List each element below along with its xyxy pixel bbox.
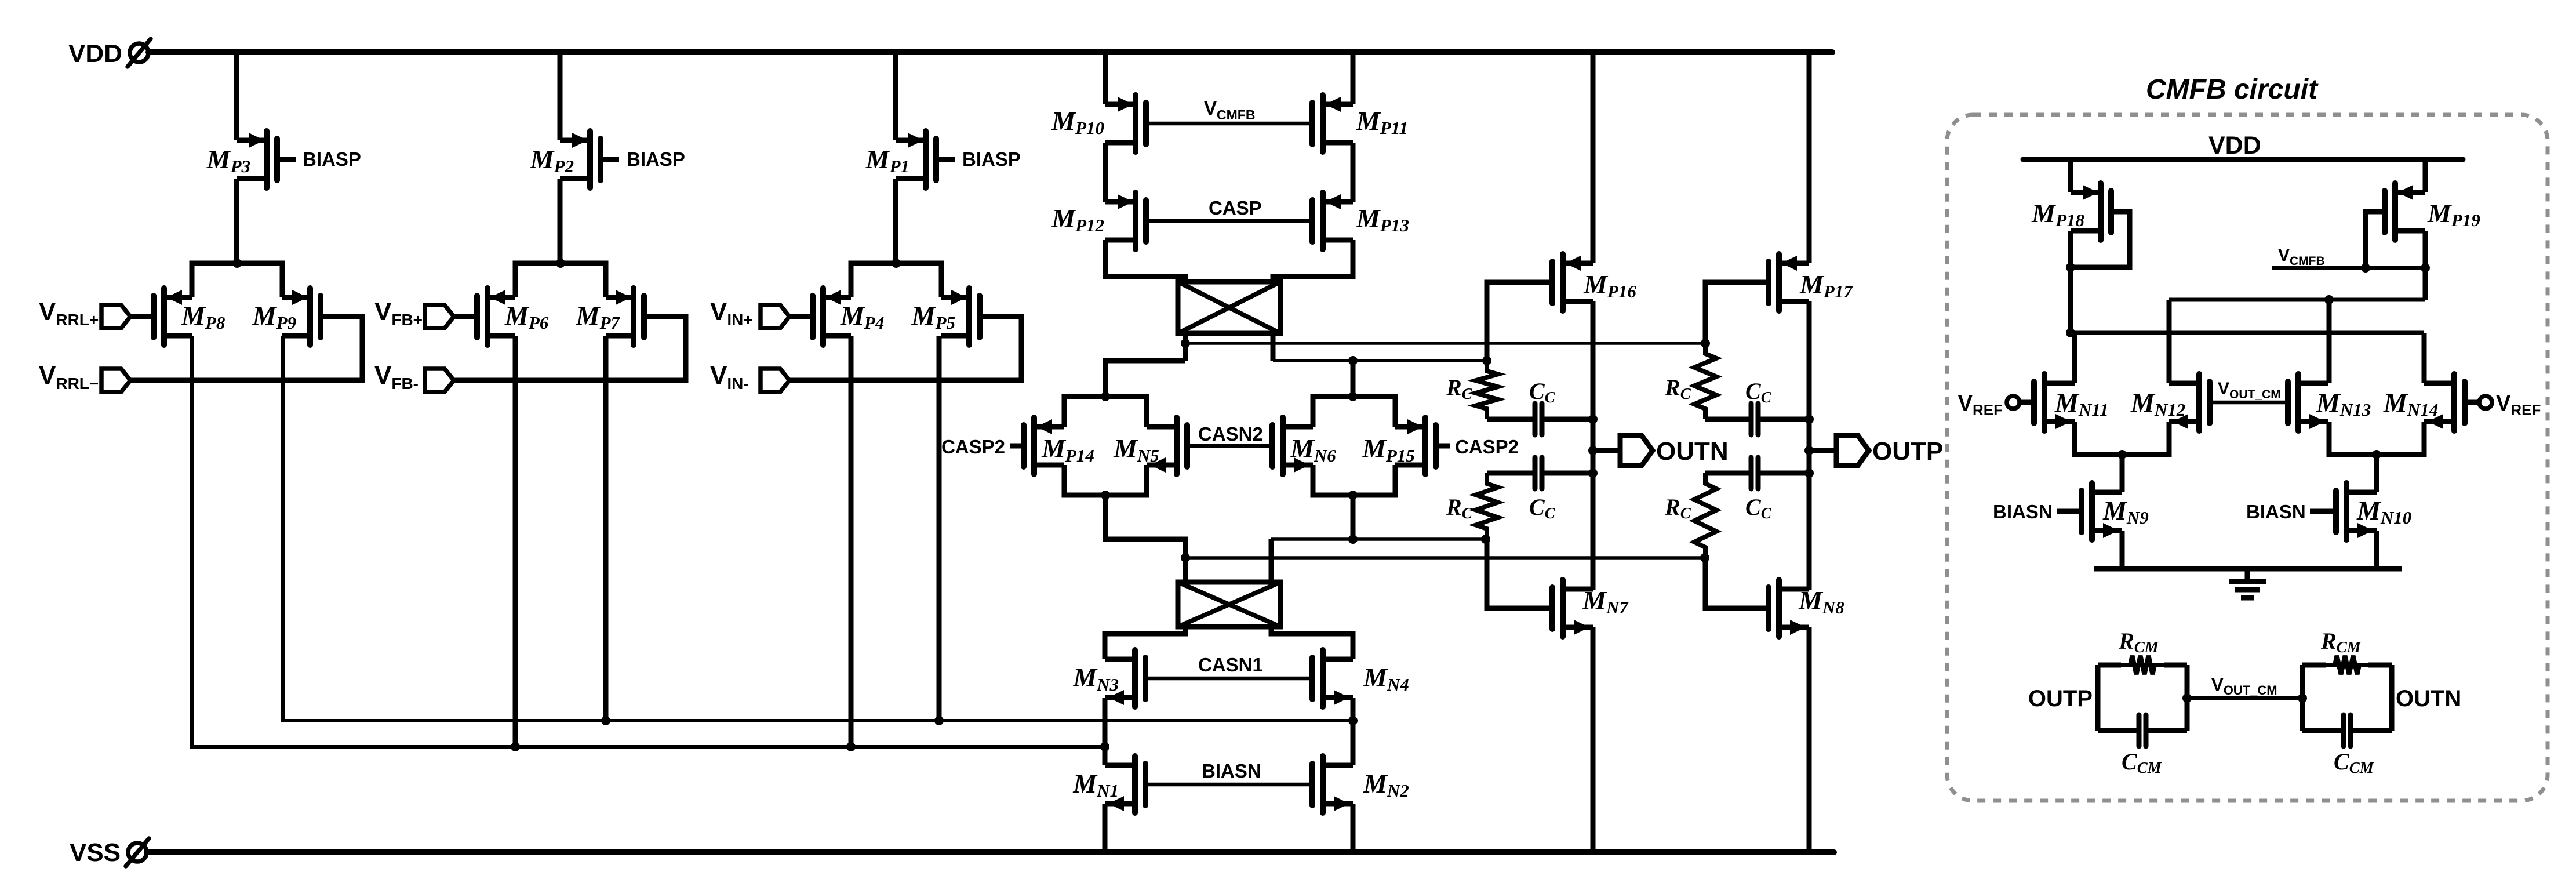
svg-text:OUTN: OUTN	[2396, 686, 2461, 711]
node bus to MN3 column junction	[1100, 742, 1109, 751]
transistor MN11	[2034, 374, 2075, 431]
node RC/CC to output OUTN upper	[1588, 415, 1598, 424]
wire MP1 drain to tail node	[893, 179, 898, 263]
node output tap OUTN	[1588, 446, 1598, 455]
wire MP6 drain	[513, 336, 518, 747]
wire MN13/MN14 source rail	[2329, 422, 2424, 455]
wire VFB- to MP7 gate	[453, 317, 686, 380]
crossing box lower	[1178, 582, 1280, 627]
wire bus3 cascode node N3	[1271, 537, 1486, 541]
wire VDD to MP16 source	[1591, 52, 1596, 263]
wire ground rail	[2094, 566, 2402, 572]
svg-text:BIASP: BIASP	[962, 148, 1021, 170]
wire crossing box to bus1	[1183, 333, 1188, 361]
resistor RCM (OUTP side)	[2098, 663, 2121, 668]
wire BIASN gate line MN1-MN2	[1145, 783, 1312, 787]
wire MP4 drain	[849, 336, 854, 747]
transistor MP7	[606, 288, 644, 345]
node output tap OUTP	[1804, 446, 1814, 455]
power terminal VDD	[68, 39, 151, 68]
wire VRRL- to MP9 gate	[129, 317, 362, 380]
wire MN7 source to VSS	[1591, 627, 1596, 852]
svg-text:CASN1: CASN1	[1198, 654, 1263, 675]
wire VDD to MP10 source	[1103, 52, 1108, 104]
wire output stub OUTN	[1593, 448, 1620, 453]
wire bus4 cascode node N4	[1185, 556, 1705, 560]
port VFB-	[425, 369, 454, 392]
port VREF left	[2007, 396, 2020, 409]
ground symbol	[2229, 569, 2266, 598]
wire tail to MN10 drain	[2374, 455, 2379, 492]
wire VSS rail	[147, 849, 1834, 855]
wire MP17 drain / output column	[1807, 301, 1812, 590]
transistor MP1	[896, 131, 936, 188]
wire crossing box 2 to MN4 drain	[1271, 627, 1353, 659]
wire MP12 drain to crossing box	[1105, 240, 1185, 284]
resistor RC upper at MP16	[1476, 361, 1498, 419]
node MP6 drain junction	[511, 742, 520, 751]
wire VIN+ port to MP4 gate	[788, 314, 813, 319]
crossing box upper	[1178, 282, 1280, 333]
node bus2 MP16 gate end	[1482, 356, 1491, 365]
capacitor CCM (OUTN side)	[2302, 728, 2341, 733]
wire crossing box 2 riser right	[1269, 539, 1274, 582]
node bus4 MN8 gate end	[1700, 553, 1709, 562]
wire VDD to MP2 source	[558, 52, 563, 140]
node MP19 drain to VCMFB line	[2421, 263, 2430, 273]
node MP18 drain-gate junction	[2066, 263, 2075, 272]
wire MP10 drain to MP12 source	[1103, 143, 1108, 202]
wire MP7 drain	[603, 336, 609, 721]
node MN6/MP15 top rail tap	[1348, 392, 1358, 401]
transistor MP18	[2071, 183, 2111, 240]
wire tail to MN9 drain	[2120, 455, 2125, 492]
node MN6/MP15 top tap	[1348, 356, 1358, 365]
svg-text:BIASP: BIASP	[627, 148, 685, 170]
wire MN6/MP15 bottom to bus3	[1351, 495, 1356, 539]
wire MN12 drain up	[2167, 300, 2172, 383]
wire VDD to MP17 source	[1807, 52, 1812, 263]
svg-text:BIASP: BIASP	[303, 148, 361, 170]
svg-text:OUTP: OUTP	[2028, 686, 2093, 711]
wire MP8 drain to lower bus	[192, 336, 1105, 747]
node bus3 tap MN6/MP15	[1348, 535, 1358, 544]
wire output stub OUTP	[1809, 448, 1836, 453]
capacitor CC upper at MP16	[1487, 417, 1533, 422]
wire bottom rail of MN6/MP15	[1313, 465, 1395, 495]
wire MP14/MN5 bottom to crossing box 2	[1105, 495, 1185, 582]
svg-text:CMFB circuit: CMFB circuit	[2146, 74, 2319, 105]
wire top rail of MN6/MP15	[1313, 397, 1395, 427]
wire VDD to MP18 source	[2068, 159, 2073, 192]
wire bottom rail of MP14/MN5	[1064, 465, 1147, 495]
wire MN13 drain up	[2327, 300, 2332, 383]
transistor MN7	[1552, 580, 1593, 637]
wire crossing box 2 to MN3 drain	[1105, 627, 1185, 659]
transistor MP5	[941, 288, 980, 345]
svg-text:CASN2: CASN2	[1198, 423, 1263, 445]
node MP14/MN5 top rail tap	[1101, 392, 1110, 401]
node bus4 left end	[1181, 553, 1190, 562]
wire MP19 gate to VCMFB line	[2366, 212, 2385, 268]
svg-text:BIASN: BIASN	[1993, 501, 2053, 522]
transistor MP9	[282, 288, 321, 345]
wire VCMFB output line	[2272, 266, 2425, 270]
node MP14/MN5 bottom rail tap	[1101, 491, 1110, 500]
transistor MP14	[1024, 417, 1064, 474]
wire MP15 gate stub	[1436, 444, 1450, 449]
transistor MN1	[1105, 756, 1145, 813]
port VRRL-	[101, 369, 130, 392]
wire drain line MN11-MN14	[2071, 331, 2424, 335]
node tail of pair at MP2	[556, 259, 565, 268]
node MP5 drain junction	[934, 716, 944, 725]
port VREF right	[2479, 396, 2492, 409]
wire VDD rail	[148, 49, 1832, 55]
node tail of pair at MP3	[232, 259, 242, 268]
power terminal VSS	[70, 838, 149, 867]
wire MP3 drain to tail node	[234, 179, 239, 263]
port VRRL+	[101, 305, 130, 328]
wire MP9 drain to upper bus	[283, 336, 1353, 721]
svg-text:OUTP: OUTP	[1872, 437, 1943, 466]
svg-text:BIASN: BIASN	[1202, 760, 1261, 782]
wire VDD to MP1 source	[893, 52, 898, 140]
transistor MN8	[1769, 580, 1809, 637]
transistor MP16	[1552, 254, 1593, 311]
transistor MN12	[2169, 374, 2210, 431]
wire MP16 gate to bus	[1487, 282, 1552, 361]
capacitor CC lower at MN7	[1487, 471, 1533, 476]
transistor MN14	[2424, 374, 2465, 431]
wire bus2 cascode node N2	[1273, 359, 1487, 362]
transistor MP3	[237, 131, 277, 188]
transistor MP19	[2385, 183, 2425, 240]
wire MP2 drain to tail node	[558, 179, 563, 263]
wire MP18 gate to drain (diode)	[2071, 212, 2130, 267]
resistor RC upper at MP17	[1694, 343, 1716, 419]
transistor MP10	[1105, 95, 1146, 152]
svg-text:CASP2: CASP2	[1455, 436, 1519, 457]
wire MN11 drain up	[2072, 333, 2077, 383]
transistor MN10	[2336, 483, 2377, 540]
wire bus2 to MN6/MP15 top rail	[1351, 361, 1356, 397]
wire MP2 gate stub	[601, 157, 619, 162]
svg-text:OUTN: OUTN	[1656, 437, 1729, 466]
wire bus1 cascode node N1	[1185, 342, 1705, 345]
wire MN9 source to ground rail	[2120, 531, 2125, 569]
wire VRRL+ port to MP8 gate	[129, 314, 154, 319]
port OUTP	[1836, 435, 1869, 466]
transistor MN9	[2082, 483, 2122, 540]
wire MP16 drain / output column	[1591, 301, 1596, 590]
svg-text:CASP2: CASP2	[941, 436, 1005, 457]
resistor RCM (OUTN side)	[2302, 663, 2326, 668]
transistor MP11	[1312, 95, 1353, 152]
wire VCMFB gate line MP10-MP11	[1146, 122, 1312, 126]
port OUTN	[1620, 435, 1653, 466]
wire MN3 source to MN1 drain	[1103, 698, 1108, 765]
wire VDD to MP19 source	[2423, 159, 2428, 192]
resistor RC lower at MN7	[1476, 473, 1498, 539]
wire VOUT_CM gate line MN12-MN13	[2210, 401, 2288, 405]
port VIN-	[761, 369, 789, 392]
wire BIASN stub MN10	[2310, 509, 2336, 514]
svg-text:BIASN: BIASN	[2246, 501, 2306, 522]
node bus to MN4 column junction	[1348, 716, 1358, 725]
wire MP1 gate stub	[936, 157, 955, 162]
wire MN2 source to VSS	[1351, 804, 1356, 852]
wire BIASN stub MN9	[2057, 509, 2082, 514]
wire MN4 source to MN2 drain	[1351, 698, 1356, 765]
node CC lower to output column	[1804, 468, 1814, 478]
wire VDD to MP3 source	[234, 52, 239, 140]
wire tail rail of MP6/MP7	[515, 263, 606, 297]
transistor MN4	[1312, 650, 1353, 707]
wire VFB+ port to MP6 gate	[453, 314, 477, 319]
capacitor CCM (OUTP side)	[2098, 728, 2137, 733]
node bus3 MN7 gate end	[1481, 535, 1490, 544]
transistor MP12	[1105, 192, 1146, 249]
node CC lower to output column	[1588, 468, 1598, 478]
transistor MP6	[477, 288, 515, 345]
wire CASP gate line MP12-MP13	[1146, 219, 1312, 223]
wire VIN- to MP5 gate	[788, 317, 1021, 380]
transistor MP4	[813, 288, 851, 345]
transistor MP2	[560, 131, 601, 188]
svg-text:CASP: CASP	[1209, 197, 1262, 219]
node MN6/MP15 bottom rail tap	[1348, 491, 1358, 500]
wire MP11 drain to MP13 source	[1351, 143, 1356, 202]
wire MN11/MN12 source rail	[2075, 422, 2169, 455]
wire jog to MP14/MN5 top rail	[1105, 361, 1185, 397]
node MN11/MN12 tail	[2117, 450, 2127, 459]
wire CMFB VDD rail	[2023, 157, 2463, 162]
transistor MP15	[1395, 417, 1436, 474]
port VIN+	[761, 305, 789, 328]
node MN13/MN14 tail	[2372, 450, 2381, 459]
node VOUT_CM right	[2298, 693, 2307, 703]
wire MP19 drain down	[2423, 231, 2428, 300]
transistor MN2	[1312, 756, 1353, 813]
node MP18 drain to line	[2066, 328, 2075, 337]
wire MP17 gate to bus	[1705, 282, 1769, 343]
svg-text:VDD: VDD	[68, 39, 122, 68]
node MP19 gate tap on VCMFB line	[2361, 263, 2370, 273]
transistor MN6	[1272, 417, 1313, 474]
resistor RC lower at MN8	[1694, 473, 1716, 558]
wire tail rail of MP8/MP9	[192, 263, 282, 297]
wire tail rail of MP4/MP5	[851, 263, 941, 297]
transistor MP17	[1769, 254, 1809, 311]
wire MP13 drain to crossing box	[1273, 240, 1353, 284]
wire MN10 source to ground rail	[2374, 531, 2379, 569]
transistor MN5	[1147, 417, 1187, 474]
capacitor CC upper at MP17	[1705, 417, 1749, 422]
wire MP3 gate stub	[277, 157, 296, 162]
transistor MN13	[2288, 374, 2328, 431]
wire MN7 gate to bus	[1487, 539, 1552, 608]
node VOUT_CM left	[2182, 693, 2192, 703]
wire VOUT_CM net	[2187, 696, 2302, 700]
wire MP14 gate stub	[1010, 444, 1024, 449]
wire MP18 drain down	[2068, 231, 2073, 333]
wire sense loop OUTN	[2300, 665, 2305, 731]
wire CASN2 gate line MN5-MN6	[1187, 444, 1272, 448]
node MN13 drain tap	[2324, 295, 2334, 304]
node MP7 drain junction	[601, 716, 610, 725]
wire MN14 drain up	[2422, 333, 2427, 383]
wire MN1 source to VSS	[1103, 804, 1108, 852]
node bus1 left end	[1181, 339, 1190, 348]
wire drain line MN12-MN13-MP19	[2169, 298, 2425, 302]
port VFB+	[425, 305, 454, 328]
node tail of pair at MP1	[892, 259, 901, 268]
wire sense loop OUTP	[2095, 665, 2101, 731]
wire VREF to MN11 gate	[2020, 400, 2034, 405]
wire crossing box to bus2	[1271, 333, 1276, 361]
CMFB dashed border box	[1947, 115, 2548, 801]
wire MP5 drain	[937, 336, 942, 721]
node RC/CC to output OUTP upper	[1804, 415, 1814, 424]
wire VDD to MP11 source	[1351, 52, 1356, 104]
wire VREF to MN14 gate	[2465, 400, 2479, 405]
wire top rail of MP14/MN5	[1064, 397, 1147, 427]
capacitor CC lower at MN8	[1705, 471, 1749, 476]
node MP4 drain junction	[846, 742, 856, 751]
transistor MP13	[1312, 192, 1353, 249]
wire MN8 gate to bus	[1705, 558, 1769, 608]
wire MN8 source to VSS	[1807, 627, 1812, 852]
transistor MN3	[1105, 650, 1145, 707]
node bus1 MP17 gate end	[1701, 339, 1710, 348]
wire CASN1 gate line MN3-MN4	[1145, 677, 1312, 681]
transistor MP8	[154, 288, 192, 345]
svg-text:VDD: VDD	[2208, 132, 2261, 159]
svg-text:VSS: VSS	[70, 838, 121, 867]
